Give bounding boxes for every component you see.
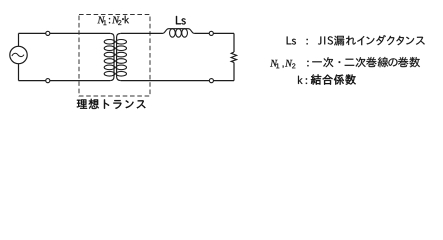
terminal node top-left	[46, 31, 50, 35]
AC voltage source V1	[10, 46, 27, 63]
wire secondary top to Ls	[121, 32, 163, 34]
terminal node top-right	[209, 31, 213, 35]
legend line1 Ls JIS leakage inductance	[287, 35, 425, 45]
transformer T1 secondary winding N2	[116, 33, 127, 80]
label N1:N2*k turns ratio	[97, 16, 129, 25]
inductor Ls	[163, 29, 195, 38]
label Ls value	[176, 16, 186, 24]
wire bottom rail right	[121, 80, 234, 82]
wire Ls to load	[194, 32, 234, 34]
legend line2 N1 N2 winding turns	[270, 57, 420, 68]
dashed box ideal transformer	[79, 15, 150, 97]
wire top rail left	[19, 32, 111, 34]
label 理想トランス ideal transformer	[77, 99, 146, 109]
terminal node bottom-left	[46, 79, 50, 83]
wire right side lower	[233, 63, 235, 81]
wire source bottom lead	[18, 64, 20, 81]
terminal node bottom-right	[209, 79, 213, 83]
wire bottom rail left	[19, 80, 111, 82]
wire right side upper	[233, 33, 235, 52]
transformer T1 primary winding N1	[104, 33, 115, 80]
wire source top lead	[18, 33, 20, 46]
legend line3 k coupling coefficient	[298, 74, 356, 84]
resistor load R	[231, 52, 236, 63]
